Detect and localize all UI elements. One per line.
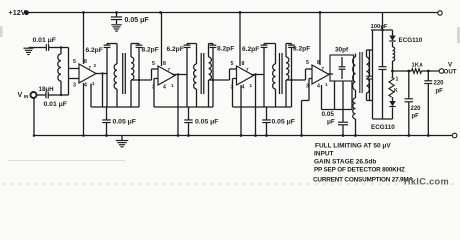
node U3 pin4 rail xyxy=(240,134,243,137)
svg-text:0.05 μF: 0.05 μF xyxy=(272,118,295,125)
transformer T4 core xyxy=(359,52,361,93)
node 100uF link xyxy=(381,29,384,32)
svg-text:4: 4 xyxy=(317,84,320,90)
wire C2 to node xyxy=(58,94,69,96)
svg-text:7: 7 xyxy=(168,67,171,72)
svg-text:1: 1 xyxy=(396,77,399,83)
wire U1 output to sub-bus xyxy=(102,74,104,108)
wire T2 primary top jog xyxy=(187,43,197,45)
+12V terminal xyxy=(24,10,29,15)
wire stage2 sub-bus xyxy=(154,106,213,108)
svg-text:5: 5 xyxy=(306,60,309,66)
node drop3 rail xyxy=(254,134,257,137)
capacitor C15 quadrature cap xyxy=(369,50,371,76)
inductor T1 secondary winding xyxy=(130,44,132,58)
wire U2 supply drop from rail xyxy=(161,13,163,67)
wire U3 pin3 stub xyxy=(233,78,237,80)
svg-text:pF: pF xyxy=(436,89,444,95)
svg-text:1: 1 xyxy=(250,83,253,88)
capacitor C11 0.05uF stage2 bypass xyxy=(188,107,190,120)
node U1 output drop xyxy=(101,72,103,74)
svg-text:220: 220 xyxy=(434,81,445,87)
wire U1 pin3 input stub xyxy=(69,78,80,80)
wire U1 output xyxy=(96,73,107,75)
svg-text:2: 2 xyxy=(94,63,97,68)
svg-text:4: 4 xyxy=(242,85,245,91)
detector trimmer shield box xyxy=(330,55,354,81)
wire box right leg xyxy=(351,81,353,110)
svg-text:8: 8 xyxy=(84,59,87,65)
svg-text:4: 4 xyxy=(163,85,166,91)
wire U4 pin4 leg xyxy=(321,85,323,110)
wire U2 pin3 leg xyxy=(153,79,155,108)
inductor T3 secondary winding xyxy=(285,44,287,58)
wire T4 secondary top jog xyxy=(366,50,368,57)
wire U4 pin3 route down xyxy=(308,79,310,101)
svg-text:6.2pF: 6.2pF xyxy=(167,46,184,53)
node VIN rail xyxy=(33,134,36,137)
wire choke to output node xyxy=(392,61,394,71)
inductor T2 secondary winding xyxy=(208,44,210,58)
capacitor C3 0.05uF rail bypass xyxy=(116,13,118,17)
transformer T1 core xyxy=(122,53,124,94)
svg-text:1: 1 xyxy=(92,81,95,86)
wire riser to U4 pin5 xyxy=(305,69,307,80)
wire ground to C1 xyxy=(29,47,42,49)
wire U3 pin3 leg xyxy=(232,79,234,108)
svg-text:8: 8 xyxy=(242,61,245,67)
top rail terminal circle xyxy=(438,11,442,15)
wire detector bottom link xyxy=(373,118,393,120)
wire T4 secondary bottom jog xyxy=(366,93,368,101)
svg-text:8.2pF: 8.2pF xyxy=(142,47,159,54)
node U4 pin3 rail xyxy=(300,134,303,137)
svg-text:CURRENT CONSUMPTION 27.9MA: CURRENT CONSUMPTION 27.9MA xyxy=(313,177,413,184)
svg-text:K: K xyxy=(394,88,398,94)
node C13 rail xyxy=(342,134,345,137)
wire stage1 sub-bus xyxy=(91,106,139,108)
svg-text:+12V: +12V xyxy=(9,8,26,17)
node L1 bottom xyxy=(60,94,62,96)
scan faint streak left xyxy=(8,160,125,162)
capacitor T3 secondary tuning cap leg xyxy=(291,44,293,46)
inductor L1 18uH xyxy=(60,48,62,55)
svg-text:OUT: OUT xyxy=(444,69,457,76)
svg-text:rikIC.com: rikIC.com xyxy=(404,177,449,187)
node coil top xyxy=(60,46,62,48)
node T1 tap cap leg xyxy=(138,79,140,81)
node rail-amp1 xyxy=(82,11,85,14)
node detector output xyxy=(391,70,394,73)
capacitor C13 0.05uF stage4 bypass xyxy=(342,81,344,122)
capacitor C12 0.05uF stage3 bypass xyxy=(266,107,268,120)
wire T3 primary top jog xyxy=(264,43,276,45)
node 220pF mid xyxy=(407,70,410,73)
svg-text:FULL LIMITING AT 50 μV: FULL LIMITING AT 50 μV xyxy=(315,143,391,150)
wire U2 output xyxy=(172,74,187,76)
ground bottom rail xyxy=(121,136,123,141)
wire stage4 sub-bus xyxy=(322,109,353,111)
svg-text:100μF: 100μF xyxy=(371,24,388,30)
node rail-amp4 xyxy=(319,11,322,14)
node C18 rail xyxy=(427,134,430,137)
wire U4 output xyxy=(328,73,333,75)
capacitor C14 30pF trimmer inside box xyxy=(341,57,343,67)
wire T4 tertiary to rail xyxy=(355,119,357,136)
capacitor T1 primary tuning cap leg xyxy=(106,44,108,46)
svg-text:6.2pF: 6.2pF xyxy=(242,46,259,53)
inductor T2 primary winding xyxy=(196,44,198,65)
transformer T4 primary winding xyxy=(355,54,357,58)
node C10 rail xyxy=(105,134,108,137)
wire U3 supply drop from rail xyxy=(239,13,241,67)
node rail-amp3 xyxy=(239,11,242,14)
wire T2 secondary tap xyxy=(209,79,230,81)
inductor L2 choke xyxy=(393,47,395,61)
op-amp U1 xyxy=(79,64,96,83)
wire T1 secondary tap xyxy=(131,79,152,81)
diode D2 ECG110 xyxy=(392,97,394,101)
capacitor T3 primary tuning cap leg xyxy=(263,44,265,46)
wire U4 supply drop from rail xyxy=(319,13,321,66)
scan fold dotted line bottom xyxy=(3,183,455,185)
resistor R2 1K shunt xyxy=(392,71,394,77)
svg-text:5: 5 xyxy=(231,61,234,67)
svg-text:0.05 μF: 0.05 μF xyxy=(125,17,150,24)
svg-text:3: 3 xyxy=(73,83,76,89)
wire C1 to input node xyxy=(54,47,69,49)
wire stage3 sub-bus xyxy=(233,106,292,108)
svg-text:6.2pF: 6.2pF xyxy=(86,47,103,54)
node C11 rail xyxy=(187,134,190,137)
capacitor C18 220pF right xyxy=(427,71,429,81)
svg-text:1K∧: 1K∧ xyxy=(412,63,424,69)
wire U1 center ground leg xyxy=(83,83,85,136)
svg-text:7: 7 xyxy=(246,67,249,72)
wire U2 output drop to rail xyxy=(177,75,179,136)
svg-text:PP SEP OF DETECTOR 800KHZ: PP SEP OF DETECTOR 800KHZ xyxy=(314,167,405,174)
svg-text:0.05: 0.05 xyxy=(322,111,335,118)
capacitor C1 0.01uF xyxy=(41,47,46,49)
wire U4 pin3 stub xyxy=(309,78,312,80)
wire U2 pin3 stub xyxy=(154,78,158,80)
paper background xyxy=(0,0,460,188)
wire U1 pin5 input stub xyxy=(69,68,80,70)
svg-text:INPUT: INPUT xyxy=(314,151,334,158)
svg-text:0.05 μF: 0.05 μF xyxy=(113,118,136,125)
svg-text:μF: μF xyxy=(327,119,335,126)
wire +12V top supply rail xyxy=(28,12,438,14)
op-amp U2 xyxy=(158,66,175,85)
node U2 output drop xyxy=(177,73,179,75)
transformer T3 core xyxy=(278,53,280,94)
node rail-amp2 xyxy=(159,11,162,14)
wire link to rail xyxy=(382,13,384,31)
svg-text:ECG110: ECG110 xyxy=(371,124,395,131)
wire input vertical riser xyxy=(68,48,70,96)
svg-text:0.05 μF: 0.05 μF xyxy=(195,118,218,125)
wire T1 secondary top jog xyxy=(131,43,139,45)
wire U3 output drop to rail xyxy=(255,75,257,136)
svg-text:7: 7 xyxy=(89,65,92,70)
wire U3 pin4 leg xyxy=(240,85,242,136)
scan smudge top left xyxy=(0,26,3,37)
VOUT terminal xyxy=(439,69,444,74)
node drop2 rail xyxy=(177,134,180,137)
inductor T4 tertiary winding xyxy=(353,98,356,119)
svg-text:1: 1 xyxy=(325,82,328,87)
svg-text:8.2pF: 8.2pF xyxy=(217,46,234,53)
transformer T2 core xyxy=(200,53,202,94)
node U1 ground leg rail xyxy=(82,134,85,137)
wire U3 output xyxy=(251,74,264,76)
svg-text:5: 5 xyxy=(73,59,76,65)
wire detector output line xyxy=(393,70,412,72)
svg-text:220: 220 xyxy=(411,106,422,112)
wire U1 pin4 leg xyxy=(90,84,92,108)
svg-text:7: 7 xyxy=(322,66,325,71)
op-amp U4 xyxy=(312,65,329,84)
wire R1 to OUT xyxy=(422,70,440,72)
node 220pF right xyxy=(427,70,430,73)
node C17 rail xyxy=(407,134,410,137)
svg-text:pF: pF xyxy=(412,114,420,120)
ground input top xyxy=(24,47,34,49)
svg-text:V: V xyxy=(18,92,23,99)
wire T3 secondary tap xyxy=(286,79,306,81)
wire ground return bottom rail xyxy=(34,135,452,137)
wire detector left leg xyxy=(372,30,374,119)
capacitor T2 primary tuning cap leg xyxy=(186,44,188,46)
svg-text:ECG110: ECG110 xyxy=(399,37,423,44)
capacitor C2 0.01uF input coupling xyxy=(37,94,46,96)
ground for C3 xyxy=(111,24,122,26)
capacitor C17 220pF mid xyxy=(408,71,410,99)
wire U4 output into T4 xyxy=(354,73,356,75)
wire T2 secondary top jog xyxy=(209,43,214,45)
node T3 tap cap leg xyxy=(290,79,292,81)
svg-text:1: 1 xyxy=(171,83,174,88)
diode D1 ECG110 xyxy=(392,30,394,36)
svg-text:0.01 μF: 0.01 μF xyxy=(44,101,67,108)
capacitor C16 100uF electrolytic xyxy=(382,30,384,67)
node T2 tap cap leg xyxy=(212,79,214,81)
svg-text:8: 8 xyxy=(163,61,166,67)
bottom rail terminal circle xyxy=(452,133,457,138)
wire box left leg xyxy=(334,81,336,110)
svg-text:4: 4 xyxy=(84,83,87,89)
scan streak right edge xyxy=(457,27,460,43)
wire T3 secondary top jog xyxy=(286,43,292,45)
wire 100uF top link xyxy=(371,29,393,31)
node rail-C3 xyxy=(115,11,118,14)
capacitor C10 0.05uF stage1 bypass xyxy=(106,107,108,120)
svg-text:30pf: 30pf xyxy=(335,47,349,54)
svg-text:8.2pF: 8.2pF xyxy=(293,46,310,53)
resistor R1 1K series xyxy=(412,69,422,74)
wire T1 primary top jog xyxy=(107,43,117,45)
wire riser to U3 pin5 xyxy=(229,69,231,80)
svg-text:GAIN STAGE 26.5db: GAIN STAGE 26.5db xyxy=(314,159,376,166)
node C12 rail xyxy=(265,134,268,137)
wire riser to U2 pin5 xyxy=(151,69,153,80)
svg-text:IN: IN xyxy=(24,94,29,99)
svg-text:5: 5 xyxy=(152,61,155,67)
svg-text:8: 8 xyxy=(317,60,320,66)
VIN terminal xyxy=(31,92,37,98)
node tertiary rail xyxy=(354,134,357,137)
capacitor T2 secondary tuning cap leg xyxy=(212,44,214,46)
wire VIN down to ground rail xyxy=(33,98,35,136)
op-amp U3 xyxy=(237,66,254,85)
capacitor T1 secondary tuning cap leg xyxy=(138,44,140,46)
svg-text:0.01 μF: 0.01 μF xyxy=(33,37,56,44)
wire U1 supply drop from rail xyxy=(83,13,85,65)
inductor T3 primary winding xyxy=(275,44,277,65)
node U3 output drop xyxy=(254,73,256,75)
transformer T4 secondary winding xyxy=(367,57,370,93)
inductor T1 primary winding xyxy=(116,44,118,65)
